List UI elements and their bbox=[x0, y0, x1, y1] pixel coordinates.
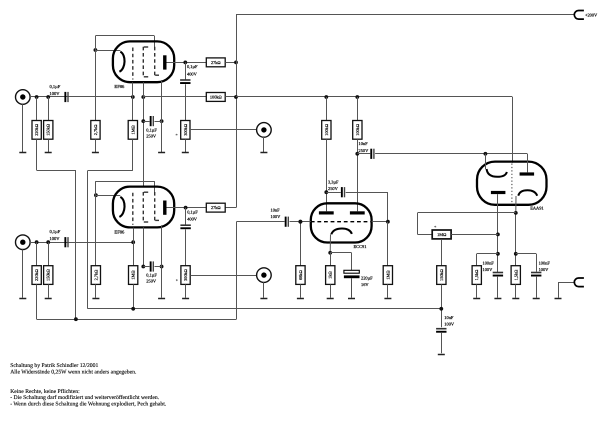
ground tick g3 ch1 bbox=[158, 152, 165, 154]
ground tick OUT1 bbox=[260, 152, 267, 154]
resistor 1M grid right bbox=[383, 222, 392, 298]
node 10nF tap bbox=[355, 152, 359, 156]
wire rail A (return bus) bbox=[88, 308, 442, 310]
wire g2 lead ch2 bbox=[143, 227, 145, 266]
capacitor 10nF 250V bbox=[357, 141, 527, 159]
asterisk 300k ch1 bbox=[175, 133, 178, 139]
svg-text:1,5kΩ: 1,5kΩ bbox=[474, 270, 479, 281]
svg-text:250V: 250V bbox=[146, 279, 157, 284]
wire to OUT2 bbox=[190, 275, 256, 277]
svg-text:10nF: 10nF bbox=[271, 208, 281, 213]
note line 5 bbox=[10, 402, 167, 408]
svg-text:100kΩ: 100kΩ bbox=[324, 124, 329, 136]
ground tick 68k bbox=[297, 298, 304, 300]
ground tick OUT2 bbox=[260, 298, 267, 300]
svg-text:EAA91: EAA91 bbox=[530, 206, 543, 211]
ground tick g3 ch2 bbox=[158, 298, 165, 300]
ground tick IN2 bbox=[19, 298, 26, 300]
node rail A end bbox=[439, 307, 443, 311]
resistor 1k cathode bbox=[326, 253, 335, 298]
resistor 2,7k cathode ch2 bbox=[91, 195, 100, 298]
svg-text:220kΩ: 220kΩ bbox=[34, 269, 39, 281]
input connector IN2 (RCA) bbox=[15, 235, 30, 298]
svg-text:100V: 100V bbox=[483, 267, 494, 272]
svg-text:400V: 400V bbox=[187, 217, 198, 222]
resistor 300k ch2 bbox=[181, 266, 190, 298]
wire cathode left lead EAA91 bbox=[485, 154, 487, 169]
wire cathode lead ECC91 bbox=[329, 234, 331, 252]
node IN2-R junction bbox=[35, 240, 50, 244]
capacitor 3,3uF 250V bbox=[326, 180, 388, 222]
node anode left 1M bbox=[496, 233, 500, 237]
resistor 100k screen ch1 bbox=[206, 93, 236, 102]
node cathode ch1 bbox=[94, 48, 98, 52]
resistor 100k plate left bbox=[322, 97, 331, 139]
capacitor 0,1uF 250V ch2 bbox=[143, 261, 161, 283]
resistor 1M grid ch1 bbox=[128, 82, 137, 139]
svg-text:300kΩ: 300kΩ bbox=[183, 124, 188, 136]
capacitor 0,1uF 400V ch1 bbox=[180, 62, 198, 120]
svg-text:1kΩ: 1kΩ bbox=[328, 271, 333, 279]
wire cathode jog ch2 bbox=[96, 181, 155, 195]
wire B+ vertical bbox=[225, 15, 236, 208]
ground tick 1M ECC91 bbox=[384, 298, 391, 300]
svg-text:100V: 100V bbox=[50, 91, 61, 96]
svg-text:1MΩ: 1MΩ bbox=[130, 125, 135, 134]
resistor 1M grid ch2 bbox=[129, 228, 138, 309]
node cathode right 1M bbox=[514, 211, 518, 215]
svg-text:0,1µF: 0,1µF bbox=[50, 229, 61, 234]
capacitor 0,1uF 400V ch2 bbox=[180, 208, 198, 266]
capacitor 10nF 100V bottom bbox=[436, 315, 455, 353]
svg-text:220µF: 220µF bbox=[361, 276, 373, 281]
wire to OUT1 bbox=[190, 129, 257, 131]
svg-text:10nF: 10nF bbox=[359, 141, 369, 146]
wire grid right ECC91 bbox=[372, 221, 388, 223]
resistor 1,5k left bbox=[472, 254, 498, 298]
wire to output connector bbox=[558, 282, 575, 297]
svg-text:250V: 250V bbox=[146, 134, 157, 139]
node IN1-R junction bbox=[35, 95, 50, 99]
output connector OUT2 (RCA) bbox=[257, 268, 272, 298]
ground tick 150k ch1 bbox=[45, 152, 52, 154]
capacitor 10nF 100V bias bbox=[236, 208, 300, 227]
node anode tap ch2 bbox=[184, 206, 188, 210]
svg-text:1,5kΩ: 1,5kΩ bbox=[513, 270, 518, 281]
svg-text:300kΩ: 300kΩ bbox=[183, 269, 188, 281]
tube ECC91 bbox=[311, 203, 372, 249]
resistor 100k plate right bbox=[353, 97, 362, 139]
node rail B 220k bbox=[74, 317, 78, 321]
ground tick 100nF right bbox=[533, 298, 540, 300]
svg-text:220kΩ: 220kΩ bbox=[34, 124, 39, 136]
ground tick 2,7k ch1 bbox=[92, 152, 99, 154]
connector OUT bbox=[574, 278, 584, 287]
svg-text:1MΩ: 1MΩ bbox=[131, 270, 136, 279]
wire B+ distribution bbox=[236, 97, 513, 163]
svg-text:250V: 250V bbox=[359, 148, 370, 153]
svg-text:100kΩ: 100kΩ bbox=[355, 124, 360, 136]
svg-text:0,1µF: 0,1µF bbox=[50, 84, 61, 89]
asterisk 300k ch2 bbox=[176, 278, 179, 284]
note line 2 bbox=[10, 370, 137, 376]
capacitor 0,1uF 250V ch1 bbox=[143, 116, 161, 139]
ground tick IN1 bbox=[19, 152, 26, 154]
ground tick 1,5k left bbox=[473, 298, 480, 300]
svg-text:68kΩ: 68kΩ bbox=[298, 270, 303, 280]
wire plate left lead bbox=[326, 139, 328, 211]
svg-text:150kΩ: 150kΩ bbox=[46, 269, 51, 281]
node cathode right out bbox=[514, 252, 518, 256]
node rail A ch2 1M bbox=[131, 307, 135, 311]
ground tick 10nF bottom bbox=[438, 354, 445, 356]
wire cathode jog ch1 bbox=[95, 36, 154, 51]
wire anode left lead EAA91 bbox=[497, 194, 499, 272]
svg-text:Alle Widerstände 0,25W wenn ni: Alle Widerstände 0,25W wenn nicht anders… bbox=[10, 370, 137, 376]
wire anode right lead EAA91 bbox=[527, 154, 529, 173]
svg-text:Schaltung by Patrik Schindler: Schaltung by Patrik Schindler 12/2001 bbox=[10, 363, 98, 369]
ground tick 300k ch2 bbox=[182, 298, 189, 300]
connector +200V bbox=[574, 11, 598, 20]
node g2 cap ch1 bbox=[141, 119, 163, 123]
svg-text:150kΩ: 150kΩ bbox=[46, 124, 51, 136]
node grid right ECC91 bbox=[386, 220, 390, 224]
wire +200V rail bbox=[236, 14, 575, 16]
ground tick 220uF bbox=[348, 298, 355, 300]
svg-text:EF86: EF86 bbox=[114, 84, 125, 89]
resistor 27k anode ch2 bbox=[206, 203, 225, 212]
svg-text:100V: 100V bbox=[50, 236, 61, 241]
ground tick 1k bbox=[327, 298, 334, 300]
wire IN2 to grid bbox=[30, 242, 133, 244]
ground tick 100nF left bbox=[494, 298, 501, 300]
svg-text:1MΩ: 1MΩ bbox=[437, 232, 446, 237]
svg-text:1MΩ: 1MΩ bbox=[385, 270, 390, 279]
svg-text:3,3µF: 3,3µF bbox=[328, 180, 339, 185]
node B+ 100k left bbox=[324, 95, 328, 99]
wire 1M ch1 to rail bbox=[88, 139, 133, 309]
ground tick 2,7k ch2 bbox=[92, 298, 99, 300]
capacitor 0,1uF 100V ch2 bbox=[50, 229, 69, 247]
svg-text:0,1µF: 0,1µF bbox=[187, 209, 198, 214]
wire g3 lead ch2 bbox=[161, 225, 163, 298]
svg-text:Keine Rechte, keine Pflichten:: Keine Rechte, keine Pflichten: bbox=[10, 389, 80, 395]
wire 220k ch1 to bias rail bbox=[37, 139, 76, 319]
output connector OUT1 (RCA) bbox=[257, 123, 272, 153]
svg-text:0,1µF: 0,1µF bbox=[146, 273, 157, 278]
tube EF86 ch1 bbox=[113, 41, 174, 89]
svg-text:16V: 16V bbox=[361, 282, 369, 287]
svg-text:- Wenn durch diese Schaltung d: - Wenn durch diese Schaltung die Wohnung… bbox=[10, 402, 167, 408]
note line 1 bbox=[10, 363, 98, 369]
node cathode ECC91 bbox=[328, 251, 332, 255]
wire g2 lead ch1-ch2 bbox=[143, 82, 145, 187]
node B+ ch1 bbox=[234, 95, 238, 99]
resistor 220k ch1 bbox=[32, 97, 41, 139]
svg-text:+200V: +200V bbox=[585, 12, 598, 17]
node 3,3uF tap bbox=[324, 190, 328, 194]
wire grid left ECC91 bbox=[300, 221, 310, 223]
node anode left out bbox=[496, 252, 500, 256]
svg-text:0,1µF: 0,1µF bbox=[146, 128, 157, 133]
wire rail B (bias bus) bbox=[37, 319, 237, 321]
node B+ 100k right bbox=[355, 95, 359, 99]
node 27k B+ ch1 bbox=[234, 61, 238, 65]
resistor 1M feedback bbox=[418, 213, 516, 239]
resistor 68k grid left bbox=[296, 220, 305, 298]
svg-text:100V: 100V bbox=[539, 267, 550, 272]
input connector IN1 (RCA) bbox=[15, 90, 30, 153]
wire cathode to 220uF bbox=[330, 253, 351, 271]
svg-text:ECC91: ECC91 bbox=[354, 244, 367, 249]
node diode cathode left tap bbox=[484, 152, 488, 156]
svg-text:2,7kΩ: 2,7kΩ bbox=[93, 270, 98, 281]
svg-text:0,1µF: 0,1µF bbox=[187, 64, 198, 69]
svg-text:250V: 250V bbox=[328, 186, 339, 191]
svg-text:27kΩ: 27kΩ bbox=[211, 205, 221, 210]
resistor 220k ch2 bbox=[32, 242, 41, 319]
node bias cap out bbox=[299, 220, 303, 224]
svg-text:100kΩ: 100kΩ bbox=[210, 95, 222, 100]
svg-text:100V: 100V bbox=[271, 214, 282, 219]
tube EAA91 bbox=[477, 162, 547, 211]
resistor 1,5k right bbox=[511, 266, 520, 298]
wire anode ch1 bbox=[167, 62, 207, 64]
note line 4 bbox=[10, 395, 160, 401]
resistor 150k ch2 bbox=[44, 242, 53, 298]
resistor 300k ch1 bbox=[181, 121, 190, 153]
svg-text:- Die Schaltung darf modifizie: - Die Schaltung darf modifiziert und wei… bbox=[10, 395, 160, 401]
svg-text:100nF: 100nF bbox=[483, 261, 495, 266]
wire grid bias drop bbox=[236, 222, 238, 320]
svg-text:2,7kΩ: 2,7kΩ bbox=[93, 124, 98, 135]
svg-text:150kΩ: 150kΩ bbox=[439, 269, 444, 281]
svg-text:400V: 400V bbox=[187, 71, 198, 76]
capacitor 220uF 16V bbox=[344, 270, 373, 297]
wire anode ch2 bbox=[167, 207, 207, 209]
note line 3 bbox=[10, 389, 80, 395]
svg-text:EF86: EF86 bbox=[114, 229, 125, 234]
node g2 cap ch2 bbox=[141, 265, 163, 269]
resistor 27k anode ch1 bbox=[206, 58, 236, 67]
resistor 150k divider bbox=[437, 239, 446, 327]
svg-text:27kΩ: 27kΩ bbox=[211, 60, 221, 65]
resistor 2,7k cathode ch1 bbox=[91, 50, 100, 152]
ground tick 1,5k right bbox=[512, 298, 519, 300]
capacitor 100nF 100V right bbox=[516, 254, 551, 298]
capacitor 0,1uF 100V ch1 bbox=[50, 84, 69, 102]
wire IN1 to grid bbox=[30, 96, 133, 98]
tube EF86 ch2 bbox=[113, 187, 174, 235]
node g2 ch1 bbox=[141, 95, 145, 99]
node anode tap ch1 bbox=[183, 61, 187, 65]
node grid g1 ch1 bbox=[131, 95, 135, 99]
svg-text:10nF: 10nF bbox=[444, 315, 454, 320]
wire cathode right lead EAA91 bbox=[515, 196, 518, 266]
resistor 150k ch1 bbox=[44, 97, 53, 152]
wire plate right lead bbox=[357, 139, 359, 211]
node cathode ch2 bbox=[94, 193, 98, 197]
capacitor 100nF 100V left bbox=[483, 261, 504, 298]
svg-text:100V: 100V bbox=[444, 321, 455, 326]
ground tick 300k ch1 bbox=[182, 152, 189, 154]
wire g2 to 100k bbox=[143, 96, 206, 98]
ground tick 150k ch2 bbox=[45, 298, 52, 300]
node grid g1 ch2 bbox=[131, 240, 135, 244]
ground tick output bbox=[555, 298, 562, 300]
wire g3 lead ch1 bbox=[161, 80, 163, 152]
svg-text:100nF: 100nF bbox=[539, 261, 551, 266]
